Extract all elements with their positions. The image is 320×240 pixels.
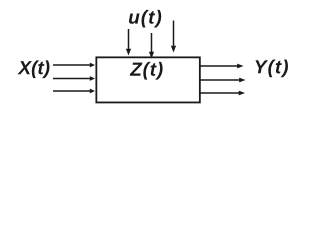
label u(t) xyxy=(129,10,161,28)
control arrowhead u2 xyxy=(149,52,154,59)
output arrowhead Y2 xyxy=(239,78,245,83)
input arrowhead X2 xyxy=(90,76,95,81)
input arrowhead X1 xyxy=(90,63,95,68)
control wire u2 xyxy=(151,33,153,53)
output wire Y1 xyxy=(201,65,239,67)
control wire u1 xyxy=(128,29,130,50)
control arrowhead u3 xyxy=(171,46,176,53)
output arrowhead Y3 xyxy=(239,91,245,96)
control wire u3 xyxy=(173,21,175,48)
label Y(t) xyxy=(256,60,289,78)
output wire Y3 xyxy=(201,92,240,94)
label Z(t) xyxy=(130,62,163,80)
label X(t) xyxy=(18,60,50,78)
output wire Y2 xyxy=(201,79,241,81)
input wire X2 xyxy=(53,78,91,80)
block Z(t) box xyxy=(96,57,200,102)
output arrowhead Y1 xyxy=(237,64,243,69)
input wire X3 xyxy=(53,90,91,92)
input arrowhead X3 xyxy=(90,89,95,94)
input wire X1 xyxy=(53,64,91,66)
control arrowhead u1 xyxy=(126,49,131,56)
